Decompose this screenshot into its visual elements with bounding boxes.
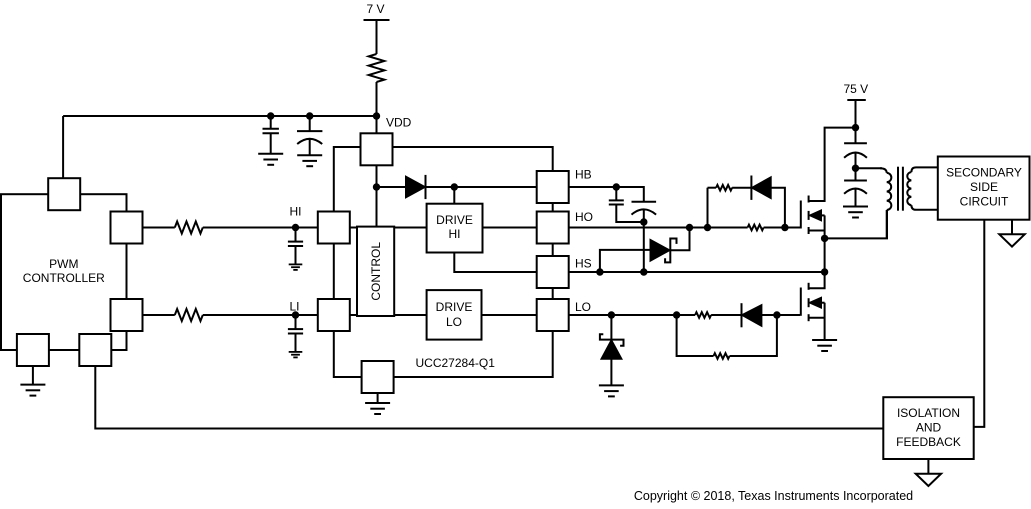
wire Z2 anode to ground [610, 359, 612, 386]
node LO branch dot [673, 311, 680, 318]
DRIVE HI label [436, 213, 473, 241]
wire HI pin to CONTROL [350, 227, 357, 229]
power rail 75 V label [843, 82, 868, 96]
wire LI cap to ground [295, 334, 297, 352]
wire VDD rail horizontal [63, 115, 376, 117]
svg-text:UCC27284-Q1: UCC27284-Q1 [416, 356, 496, 370]
ISOLATION AND FEEDBACK box [883, 397, 973, 459]
transistor Q1 source wires [809, 215, 825, 238]
node LO zener dot [608, 311, 615, 318]
wire resistor to HI node [203, 227, 318, 229]
node Z1 HS dot [596, 268, 603, 275]
wire HB node down to drive-hi [453, 187, 455, 204]
SECONDARY SIDE CIRCUIT label [946, 166, 1022, 209]
ground under C2 [297, 155, 322, 166]
PWM controller box [1, 194, 127, 350]
svg-text:CONTROL: CONTROL [369, 242, 383, 301]
node HO dot branch [704, 224, 711, 231]
diode D1 bootstrap triangle [406, 177, 425, 197]
pin VSS box of U1 (bottom) [362, 361, 394, 393]
diode D3 cathode bar [741, 303, 743, 327]
svg-text:DRIVE: DRIVE [436, 213, 473, 227]
op-amp U1 UCC27284-Q1 outline [334, 147, 553, 377]
node LO gate dot [773, 311, 780, 318]
wire resistor to LI node [203, 314, 318, 316]
transformer T1 primary winding [880, 168, 891, 238]
node 75V drain dot [852, 124, 859, 131]
wire gate node to Q1 gate [785, 227, 801, 229]
zener Z2 triangle [602, 341, 622, 359]
zener Z1 triangle [651, 240, 670, 260]
wire feedback from PWM FB pin to isolation block [95, 366, 883, 429]
wire bootstrap junction down to HS line [643, 222, 645, 272]
CONTROL block box [357, 227, 394, 316]
svg-text:LO: LO [446, 315, 462, 329]
label HS [575, 257, 592, 271]
wire D3 to gate node [761, 314, 800, 316]
wire boot cap B bottom stem [643, 209, 645, 222]
node boot cap A top dot [613, 183, 620, 190]
ground under C1 [258, 154, 283, 165]
wire boot cap A bottom [616, 205, 644, 223]
power rail 7 V label [366, 2, 384, 16]
wire cap midpoint to transformer primary [856, 167, 883, 169]
pin VDD box of U1 [361, 133, 393, 165]
svg-text:AND: AND [916, 420, 942, 434]
node HB internal dot [451, 183, 458, 190]
wire HI filter cap stem [295, 228, 297, 242]
resistor R_gate_LO (on line) [695, 312, 711, 318]
wire VDD pin to control [376, 165, 378, 226]
svg-text:Copyright © 2018, Texas Instru: Copyright © 2018, Texas Instruments Inco… [634, 489, 913, 503]
capacitor C_boot ceramic [609, 200, 624, 204]
ground under U1 VSS [365, 403, 390, 414]
transistor Q1 drain wire [809, 128, 856, 201]
zener Z2 cathode bar with hooks [600, 334, 624, 346]
wire secondary ground stem [1011, 220, 1013, 235]
svg-text:DRIVE: DRIVE [436, 300, 473, 314]
ground under Q2 source [812, 340, 837, 351]
node bypass cap C1 junction [267, 112, 274, 119]
capacitor C_in top polarized [844, 143, 867, 158]
wire top branch resistor to diode [732, 187, 751, 189]
transformer T1 secondary winding [907, 167, 938, 209]
pin HS box of U1 [537, 256, 569, 288]
node HS switch dot [821, 268, 828, 275]
wire CONTROL to DRIVE LO [394, 314, 426, 316]
resistor R_VDD (7V to VDD) [369, 54, 385, 82]
node LI dot [292, 311, 299, 318]
svg-text:VDD: VDD [386, 116, 412, 130]
DRIVE LO label [436, 300, 473, 329]
transformer T1 core [898, 167, 903, 211]
open ground under secondary box [999, 234, 1024, 246]
wire HI cap to ground [295, 246, 297, 264]
svg-text:7 V: 7 V [366, 2, 384, 16]
svg-text:CONTROLLER: CONTROLLER [23, 271, 105, 285]
transistor Q2 gate bar [800, 288, 802, 316]
wire diode anode [377, 186, 407, 188]
transistor Q1 body arrow [810, 211, 821, 221]
capacitor C1 (VDD bypass ceramic) [263, 129, 279, 133]
svg-text:CIRCUIT: CIRCUIT [960, 195, 1009, 209]
wire DRIVE LO to LO pin [482, 314, 537, 316]
wire VDD rail down to PWM VDD pin [62, 116, 64, 179]
PWM controller label [23, 257, 105, 285]
copyright text [634, 489, 913, 503]
ground under Z2 [599, 385, 624, 396]
wire boot cap A stem [615, 187, 617, 200]
wire HO pin to gate resistor [569, 227, 748, 229]
wire gate resistor to gate node [764, 227, 785, 229]
power rail 7 V bar [364, 19, 390, 21]
wire isolation ground stem [927, 459, 929, 474]
pin LO box of U1 [537, 299, 569, 331]
wire zener Z1 anode from HS [600, 250, 651, 272]
label LO [575, 300, 591, 314]
ISOLATION AND FEEDBACK label [896, 406, 961, 449]
wire PWM HI pin to resistor [143, 227, 175, 229]
diode D3 anti-parallel triangle [742, 305, 761, 325]
wire PWM LI pin to resistor [143, 314, 175, 316]
wire LI filter cap stem [295, 315, 297, 329]
wire C1 stem top [270, 116, 272, 129]
wire C1 stem bottom [270, 133, 272, 154]
node input cap midpoint dot [852, 165, 859, 172]
wire resistor to VDD node [376, 82, 378, 133]
wire CONTROL to DRIVE HI [394, 227, 426, 229]
power rail 75 V bar [847, 99, 866, 101]
label UCC27284-Q1 [416, 356, 496, 370]
zener Z1 cathode bar with hooks [665, 239, 676, 263]
diode D1 cathode bar [425, 175, 427, 199]
node bulk cap C2 junction [306, 112, 313, 119]
resistor R_gate_HO (on line) [748, 225, 764, 231]
resistor R_boost_HO (top branch) [716, 185, 732, 191]
svg-text:PWM: PWM [49, 257, 78, 271]
resistor R_boost_LO (bottom branch) [714, 353, 730, 359]
svg-text:HI: HI [290, 205, 302, 219]
wire C_in bottom to ground [855, 188, 857, 206]
wire VSS pin to ground [377, 393, 379, 403]
wire DRIVE HI to HS pin [454, 253, 536, 273]
CONTROL label (rotated) [369, 242, 383, 301]
capacitor C_in bottom polarized [844, 181, 867, 194]
PWM pin GND (bottom left) [17, 334, 49, 366]
svg-text:HO: HO [575, 210, 593, 224]
transistor Q1 channel segments [808, 196, 810, 235]
svg-text:HS: HS [575, 257, 592, 271]
svg-text:SIDE: SIDE [970, 180, 998, 194]
label HO [575, 210, 593, 224]
wire top branch to gate node [771, 188, 785, 228]
wire HO branch up [707, 188, 709, 228]
wire DRIVE HI to HO pin [483, 227, 537, 229]
transistor Q2 drain wire [809, 272, 825, 288]
small ground under C_HI [289, 264, 303, 270]
wire LO pin to network [569, 314, 695, 316]
svg-text:FEEDBACK: FEEDBACK [896, 435, 961, 449]
capacitor C_boot polarized [632, 202, 657, 215]
open ground under isolation box [916, 474, 941, 486]
pin HI box of U1 [318, 212, 350, 244]
wire 75V bar down [855, 100, 857, 143]
small ground under C_LI [289, 352, 303, 358]
DRIVE LO block box [427, 290, 482, 340]
diode D2 anti-parallel triangle [752, 178, 771, 198]
PWM pin LI out [111, 299, 143, 331]
PWM pin FB (bottom right) [79, 334, 111, 366]
wire HO branch top left [708, 187, 717, 189]
transistor Q1 gate bar [800, 201, 802, 229]
label HB [575, 168, 592, 182]
resistor R_LI [175, 309, 203, 321]
wire Z1 cathode to HO line [670, 228, 689, 251]
wire HS pin to switch node [569, 271, 825, 273]
node bootstrap diode anode dot [373, 183, 380, 190]
wire LI pin to CONTROL [350, 314, 357, 316]
SECONDARY SIDE CIRCUIT box [938, 157, 1030, 220]
capacitor C_HI filter [288, 242, 303, 246]
pin LI box of U1 [318, 299, 350, 331]
label HI [290, 205, 302, 219]
pin HO box of U1 [537, 212, 569, 244]
node HO gate dot [781, 224, 788, 231]
svg-text:ISOLATION: ISOLATION [897, 406, 960, 420]
PWM pin HI out [111, 212, 143, 244]
svg-text:LI: LI [289, 300, 299, 314]
node HI dot [292, 224, 299, 231]
ground under input caps [843, 207, 868, 218]
label LI [289, 300, 299, 314]
wire zener Z2 stem [610, 315, 612, 340]
PWM pin VDD (top) [48, 178, 80, 210]
svg-text:LO: LO [575, 300, 591, 314]
label VDD [386, 116, 412, 130]
wire C2 stem top [309, 116, 311, 131]
node bootstrap junction dot [640, 218, 647, 225]
svg-text:HI: HI [449, 227, 461, 241]
wire C_in top bottom stem [855, 152, 857, 180]
transistor Q2 channel segments [808, 283, 810, 321]
wire LO bottom branch [677, 315, 777, 356]
wire switch node down to HS/drain [824, 238, 826, 272]
wire secondary to isolation [974, 220, 985, 427]
node switch dot [821, 235, 828, 242]
node HS boot dot [640, 268, 647, 275]
node HO dot zener corner [686, 224, 693, 231]
node VDD junction dot [373, 112, 380, 119]
capacitor C2 (VDD bulk polarized) [297, 131, 322, 144]
diode D2 cathode bar [750, 176, 752, 200]
svg-text:HB: HB [575, 168, 592, 182]
wire LO resistor to diode [711, 314, 741, 316]
wire HB pin to bootstrap caps [569, 187, 644, 202]
wire diode cathode to HB pin [426, 186, 537, 188]
transistor Q2 source wires [809, 303, 825, 340]
wire PWM GND pin to ground [32, 366, 34, 385]
wire 7V bar to resistor [376, 20, 378, 54]
resistor R_HI [175, 222, 203, 234]
svg-text:75 V: 75 V [843, 82, 868, 96]
wire C2 stem bottom [309, 139, 311, 155]
DRIVE HI block box [427, 204, 483, 253]
svg-text:SECONDARY: SECONDARY [946, 166, 1022, 180]
capacitor C_LI filter [288, 329, 303, 333]
transistor Q2 body arrow [810, 298, 821, 308]
pin HB box of U1 [537, 171, 569, 203]
ground under PWM controller [20, 385, 45, 396]
wire switch node to transformer [825, 210, 887, 238]
